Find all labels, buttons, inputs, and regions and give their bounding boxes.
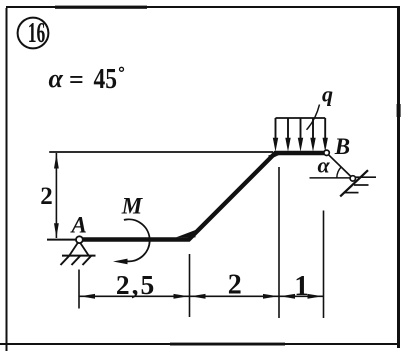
angle arc alpha at B [337,167,342,178]
svg-text:2: 2 [228,270,242,301]
svg-text:α: α [49,64,64,93]
moment M arc with arrowhead [113,194,150,265]
svg-text:A: A [70,213,87,238]
svg-text:2,5: 2,5 [116,269,156,300]
ink fillet at lower bend [176,230,196,237]
vertical dimension line 2 [40,153,59,238]
svg-text:α: α [318,152,331,177]
left thin extension at beam level [47,239,76,241]
roller link B to support [329,155,351,177]
svg-text:B: B [334,134,350,159]
ink fillet at upper bend [269,155,280,160]
bottom dimension line [79,295,324,297]
pin B circle [324,150,329,155]
roller circle [350,176,355,181]
pin support A (triangle, ground, hatching) [61,243,96,266]
beam (bent rod A-B) [83,153,324,240]
dimension arrowheads [80,294,323,299]
svg-text:45: 45 [94,64,118,95]
angle reference line at B [310,177,351,179]
distributed load q [273,82,333,152]
svg-text:1: 1 [294,270,309,302]
label alpha = 45 deg [49,64,124,95]
pin A circle [76,236,83,243]
svg-text:=: = [69,65,84,94]
hatch lines of inclined support [344,177,377,192]
svg-text:16: 16 [28,17,46,49]
svg-text:2: 2 [40,183,53,210]
svg-text:M: M [121,194,144,219]
inclined ground surface at B [340,170,368,196]
level extension line (top, from vertical dim to upper beam) [49,151,273,153]
problem number circle 16 [18,17,49,49]
svg-text:q: q [322,82,333,107]
dimension extension lines [79,167,324,318]
